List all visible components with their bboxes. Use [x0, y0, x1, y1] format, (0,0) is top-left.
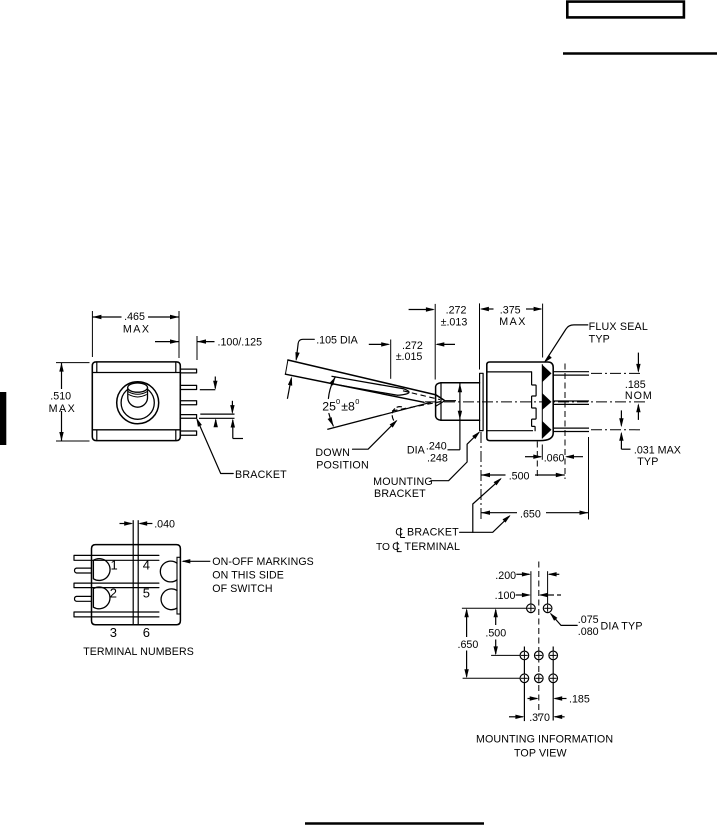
svg-text:ON THIS SIDE: ON THIS SIDE	[212, 569, 284, 581]
svg-text:0: 0	[355, 397, 359, 406]
svg-text:3: 3	[110, 625, 117, 640]
pin row callout arrow (middle pin)	[214, 377, 216, 389]
svg-text:.100/.125: .100/.125	[218, 337, 263, 349]
angle extension line	[327, 402, 431, 429]
dimension .375 MAX	[479, 303, 481, 369]
row extension lines (left)	[462, 607, 527, 609]
lever shaft end cap	[398, 389, 410, 396]
toggle bat (front view)	[128, 388, 148, 408]
toggle lever up position outer edges	[288, 360, 444, 400]
svg-text:TERMINAL: TERMINAL	[405, 541, 461, 553]
svg-text:.375: .375	[500, 305, 521, 317]
mounting bracket plate	[480, 373, 484, 430]
svg-text:BRACKET: BRACKET	[235, 469, 287, 481]
dimension .060	[525, 456, 541, 458]
dimension .500 (mounting)	[494, 608, 498, 617]
svg-text:.185: .185	[625, 379, 646, 391]
svg-text:.500: .500	[485, 627, 506, 639]
body inner bottom line	[487, 430, 533, 432]
svg-text:MOUNTING INFORMATION: MOUNTING INFORMATION	[476, 734, 613, 746]
center split lines	[132, 520, 134, 625]
terminal centerlines	[591, 372, 640, 374]
column connector lines	[523, 647, 525, 651]
svg-text:.080: .080	[578, 626, 599, 638]
dimension .650 (mounting)	[464, 608, 468, 617]
mounting holes	[527, 604, 536, 613]
lever hidden axis dash	[403, 391, 440, 400]
svg-text:C: C	[395, 527, 403, 539]
svg-text:.272: .272	[446, 305, 467, 317]
dimension .040	[120, 523, 132, 525]
terminal bars	[74, 555, 159, 560]
front view bracket tab edges	[96, 362, 98, 373]
svg-text:MAX: MAX	[499, 316, 527, 328]
svg-text:.650: .650	[520, 509, 541, 521]
toggle bushing inner circle	[121, 386, 154, 419]
svg-text:DOWN: DOWN	[315, 447, 350, 459]
far terminal column extension line	[588, 437, 590, 520]
margin change bar	[0, 392, 6, 445]
toggle bat ring lines	[128, 392, 147, 395]
dimension .185 NOM	[637, 353, 639, 372]
svg-text:DIA: DIA	[407, 445, 426, 457]
bottom view body outline	[92, 545, 181, 625]
svg-text:TERMINAL NUMBERS: TERMINAL NUMBERS	[83, 646, 194, 658]
mounting centerline (vertical dashed)	[538, 562, 540, 717]
svg-text:FLUX SEAL: FLUX SEAL	[589, 321, 648, 333]
dimension .100	[516, 594, 530, 596]
svg-text:±8: ±8	[341, 399, 355, 413]
front view bracket bottom strip line	[92, 429, 180, 431]
left terminal wells	[93, 559, 110, 581]
svg-text:4: 4	[143, 557, 150, 572]
body seam line with notches	[532, 372, 537, 431]
svg-text:.040: .040	[154, 519, 175, 531]
svg-text:TO: TO	[376, 542, 390, 553]
svg-text:.272: .272	[402, 340, 423, 352]
dimension .200	[516, 573, 529, 575]
lever diameter lower arrow	[287, 379, 291, 399]
svg-text:.100: .100	[495, 590, 516, 602]
angle dimension arc 25 deg	[328, 377, 335, 399]
svg-text:C: C	[392, 541, 400, 553]
right terminal wells	[160, 561, 177, 582]
pin thickness callout (lower pin)	[200, 413, 234, 415]
dimension .185 (mounting)	[528, 698, 538, 700]
lever neck into bushing	[435, 395, 444, 401]
svg-text:.370: .370	[529, 712, 550, 724]
svg-text:BRACKET: BRACKET	[374, 488, 426, 500]
svg-text:TYP: TYP	[637, 456, 658, 468]
dimension .100/.125	[155, 341, 179, 343]
flux seal 3	[542, 421, 551, 439]
down position lever (dashed)	[392, 407, 401, 422]
dimension .650 (side)	[481, 512, 517, 514]
svg-text:ON-OFF MARKINGS: ON-OFF MARKINGS	[212, 556, 314, 568]
svg-text:TOP VIEW: TOP VIEW	[514, 748, 567, 760]
ON-OFF MARKINGS label and arrow	[181, 559, 190, 563]
svg-text:.075: .075	[578, 614, 599, 626]
svg-text:POSITION: POSITION	[316, 459, 369, 471]
front view body outline	[92, 362, 180, 441]
seam column dashed line	[536, 442, 538, 480]
svg-text:.105 DIA: .105 DIA	[316, 335, 358, 347]
svg-text:MAX: MAX	[123, 323, 151, 335]
svg-text:.500: .500	[509, 471, 530, 483]
BRACKET label and leader	[197, 420, 233, 474]
dimension .500 (side)	[481, 474, 506, 476]
header rule line	[563, 52, 717, 55]
marking plate (right side)	[177, 557, 180, 614]
svg-text:.185: .185	[569, 694, 590, 706]
svg-text:1: 1	[111, 557, 118, 572]
footer rule line	[305, 822, 484, 824]
svg-text:MOUNTING: MOUNTING	[373, 476, 433, 488]
flux seal strip line	[541, 364, 543, 438]
dimension .031 MAX TYP	[620, 410, 622, 425]
bracket tab pins	[74, 568, 91, 573]
svg-text:OF SWITCH: OF SWITCH	[212, 583, 272, 595]
bracket centerline (vertical)	[480, 432, 482, 520]
lever shaft inner edges	[332, 376, 404, 389]
svg-text:DIA TYP: DIA TYP	[601, 620, 643, 632]
svg-text:6: 6	[143, 625, 150, 640]
toggle bushing outer circle	[117, 382, 159, 424]
svg-text:.200: .200	[495, 570, 516, 582]
label .105 DIA and leader	[296, 339, 314, 359]
dimension .465 MAX	[91, 311, 93, 357]
svg-text:.240: .240	[426, 440, 447, 452]
dimension .272 +/-.015	[390, 340, 392, 379]
dimension .370	[509, 716, 523, 718]
svg-text:25: 25	[322, 399, 336, 413]
flux seal extension stub	[541, 445, 543, 460]
front view terminal pins	[180, 369, 196, 373]
terminal pins (side view)	[553, 371, 589, 373]
body inner top line	[487, 371, 532, 373]
dimension DIA .240/.248	[459, 384, 461, 450]
svg-text:BRACKET: BRACKET	[407, 527, 459, 539]
dimension .510 MAX	[56, 362, 90, 364]
near terminal column dashed line	[564, 364, 566, 480]
flux seal 2	[542, 393, 551, 410]
svg-text:.060: .060	[544, 452, 565, 464]
svg-text:TYP: TYP	[589, 334, 610, 346]
svg-text:5: 5	[143, 586, 150, 601]
svg-text:2: 2	[110, 586, 117, 601]
svg-text:NOM: NOM	[625, 390, 653, 402]
svg-text:.248: .248	[427, 453, 448, 465]
hole extension lines (top)	[530, 571, 532, 603]
svg-text:.650: .650	[458, 639, 479, 651]
svg-text:.031 MAX: .031 MAX	[634, 445, 681, 457]
svg-text:MAX: MAX	[49, 403, 77, 415]
title block box (top right)	[567, 2, 684, 18]
front view bracket top strip line	[92, 372, 180, 374]
svg-text:.465: .465	[124, 311, 145, 323]
switch body (side view)	[487, 362, 553, 441]
svg-text:±.015: ±.015	[396, 351, 423, 363]
flux seal 1	[542, 365, 551, 382]
svg-text:±.013: ±.013	[441, 316, 468, 328]
bushing (side view)	[441, 383, 480, 421]
dimension .272 +/-.013	[434, 304, 436, 380]
svg-text:0: 0	[336, 397, 340, 406]
leader to .500 and .650	[460, 516, 510, 532]
switch horizontal centerline	[425, 401, 648, 403]
svg-text:.510: .510	[50, 391, 71, 403]
